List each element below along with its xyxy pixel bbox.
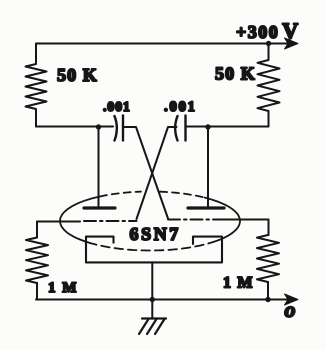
wire: C1 to right grid (diagonal) xyxy=(124,127,169,219)
resistor R3 1M (left) xyxy=(26,238,48,284)
wire: left plate lead xyxy=(98,127,100,206)
wire: right plate node (R2 bottom to C2) xyxy=(187,126,269,128)
cathode assembly (shared, bracket) xyxy=(86,237,222,263)
wire: right grid branch down xyxy=(268,220,270,236)
svg-text:o: o xyxy=(285,297,296,322)
svg-text:1 M: 1 M xyxy=(223,275,254,292)
wire: left plate node (R1 bottom to C1) xyxy=(36,126,113,128)
wire: C2 to left grid (diagonal) xyxy=(137,127,177,219)
wire: +300V top rail xyxy=(36,43,290,45)
resistor R1 50K (left, with leads) xyxy=(26,44,47,127)
svg-text:6SN7: 6SN7 xyxy=(130,224,181,244)
arrowhead: top rail output xyxy=(285,38,299,49)
node: R4 / bottom rail junction xyxy=(265,297,270,302)
wire: bottom output rail xyxy=(36,299,290,301)
resistor R2 50K (right, with leads) xyxy=(258,44,280,127)
wire: R4 to bottom rail xyxy=(267,282,269,300)
wire: left grid branch down xyxy=(36,222,38,238)
wire: R3 to bottom rail xyxy=(36,283,38,300)
grid: left triode (dash-dot) xyxy=(37,221,80,223)
node: right plate junction xyxy=(205,124,210,129)
wire: right plate lead xyxy=(207,127,209,206)
svg-text:50 K: 50 K xyxy=(215,64,256,84)
ground (chassis) xyxy=(139,319,166,335)
capacitor C1 .001 xyxy=(115,116,124,141)
plate: left triode anode bar xyxy=(84,206,115,209)
node: left plate junction xyxy=(96,124,101,129)
wire: cathode lead to ground xyxy=(151,262,153,318)
svg-text:1 M: 1 M xyxy=(48,280,78,296)
svg-text:.001: .001 xyxy=(103,100,131,115)
grid: right triode (dash-dot) xyxy=(168,219,220,221)
svg-text:.001: .001 xyxy=(164,99,197,115)
tube V1 envelope (ellipse, partly dashed) xyxy=(60,192,240,251)
capacitor C2 .001 xyxy=(175,116,185,141)
resistor R4 1M (right) xyxy=(257,235,279,282)
svg-text:+300V: +300V xyxy=(236,18,300,43)
svg-text:50 K: 50 K xyxy=(57,65,98,85)
arrowhead: bottom rail output xyxy=(285,294,299,305)
plate: right triode anode bar xyxy=(188,206,224,209)
node: top rail / R2 junction xyxy=(266,41,271,46)
node: cathode / bottom rail junction xyxy=(150,297,155,302)
